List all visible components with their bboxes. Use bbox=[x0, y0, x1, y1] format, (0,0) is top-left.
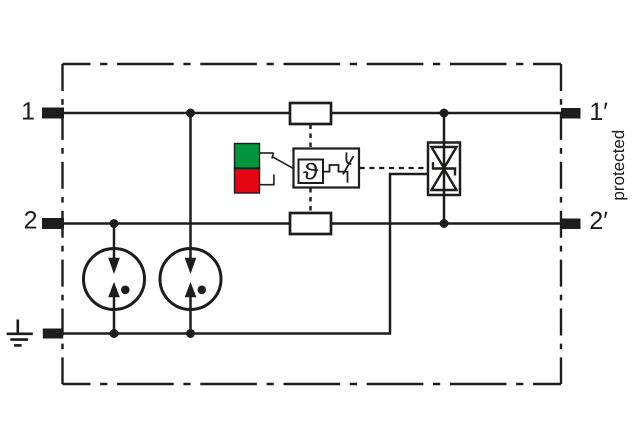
G1 gas dot bbox=[121, 286, 130, 295]
suppressor diode top triangle bbox=[432, 147, 457, 168]
theta symbol bbox=[303, 163, 318, 180]
terminal 1' bbox=[561, 108, 581, 119]
status indicator green field bbox=[235, 144, 260, 169]
label 1' bbox=[591, 103, 607, 120]
terminal 2' bbox=[561, 219, 581, 230]
suppressor diode lead bbox=[443, 113, 446, 224]
junction dot ground/G2 bbox=[186, 329, 195, 338]
indicator linkage top stub bbox=[260, 152, 274, 154]
suppressor diode box bbox=[428, 143, 460, 196]
gas discharge tube G2 lead bbox=[189, 113, 192, 334]
wire ground bus bbox=[63, 174, 428, 334]
suppressor diode zener bar bbox=[433, 162, 455, 175]
label 2 bbox=[25, 211, 36, 228]
wire line 2 bbox=[63, 222, 561, 225]
thermal step line bbox=[323, 165, 348, 183]
G2 up arrow bbox=[189, 297, 192, 310]
indicator linkage blade tick bbox=[272, 153, 274, 159]
ground symbol bbox=[7, 320, 33, 346]
resistor R2 (decoupling element line 2) bbox=[290, 213, 331, 234]
indicator linkage bottom bracket bbox=[260, 174, 274, 184]
G1 down arrow bbox=[113, 249, 116, 259]
indicator divider bbox=[234, 167, 260, 169]
dashed link thermal box to SPD bbox=[360, 167, 428, 169]
gas discharge tube G2 bbox=[160, 249, 221, 310]
thermal switch fixed contact bbox=[346, 152, 351, 164]
G1 up arrow bbox=[113, 297, 116, 310]
G2 gas dot bbox=[198, 286, 207, 295]
thermal sensor inner box bbox=[299, 160, 324, 184]
suppressor diode lead inside bbox=[443, 143, 446, 196]
terminal ground bbox=[43, 329, 63, 339]
terminal 2 bbox=[42, 218, 64, 229]
gas discharge tube G1 lead bbox=[113, 224, 116, 334]
junction dot line2/SPD bbox=[440, 219, 449, 228]
wire line 1 bbox=[63, 112, 561, 115]
label protected (rotated) bbox=[612, 131, 628, 200]
enclosure dash-dot border bbox=[63, 64, 562, 384]
label 1 bbox=[23, 102, 34, 119]
junction dot line2/G1 bbox=[110, 219, 119, 228]
gas discharge tube G1 bbox=[84, 249, 145, 310]
resistor R1 (decoupling element line 1) bbox=[290, 103, 331, 124]
suppressor diode bottom triangle bbox=[432, 169, 457, 190]
thermal switch blade bbox=[343, 156, 354, 174]
label 2' bbox=[591, 212, 608, 229]
status indicator red field bbox=[235, 168, 260, 193]
indicator linkage blade bbox=[272, 157, 294, 169]
junction dot ground/G1 bbox=[110, 329, 119, 338]
junction dot line1/SPD bbox=[440, 109, 449, 118]
thermal disconnect box U1 bbox=[294, 149, 360, 188]
G2 down arrow bbox=[189, 249, 192, 259]
terminal 1 bbox=[42, 108, 64, 119]
dashed link R2 to thermal box bbox=[309, 188, 311, 213]
junction dot line1/G2 bbox=[186, 109, 195, 118]
dashed link R1 to thermal box bbox=[309, 125, 311, 149]
